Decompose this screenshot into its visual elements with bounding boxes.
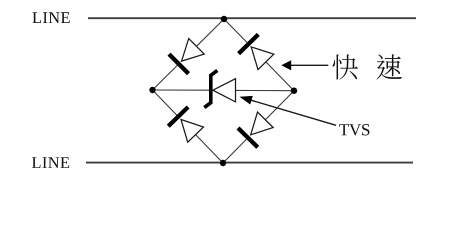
label: 快 (fast) [332, 54, 358, 79]
wire from diode D1 (upper-left, bridge) to vertex [197, 19, 225, 46]
diode D4 (lower-right, bridge): cathode bar [238, 128, 258, 147]
diode D1 (upper-left, bridge): triangle [182, 39, 205, 62]
junction dot: right vertex [291, 88, 297, 94]
diode D2 (upper-right, fast): triangle [251, 47, 274, 70]
label: TVS [339, 124, 369, 136]
net label: bottom LINE [32, 157, 69, 168]
diode D1 (upper-left, bridge): cathode bar [169, 54, 189, 74]
wire from diode D2 (upper-right, fast) to vertex [266, 62, 294, 91]
TVS diode D5: cathode bar with bent ends (zener style) [204, 71, 217, 108]
arrow shaft pointing to TVS [248, 99, 336, 125]
arrow shaft pointing to fast diode D2 [290, 64, 329, 66]
wire from vertex to diode D4 (lower-right, bridge) [223, 138, 248, 163]
wire from diode D4 (lower-right, bridge) to vertex [265, 91, 294, 120]
wire from vertex to diode D2 (upper-right, fast) [224, 19, 249, 44]
wire from vertex to diode D3 (lower-left, bridge) [153, 90, 179, 117]
wire: bottom LINE rail [86, 162, 413, 164]
diode D4 (lower-right, bridge): triangle [251, 112, 274, 135]
diode D2 (upper-right, fast): cathode bar [239, 34, 259, 53]
wire: TVS cathode to right vertex [236, 89, 295, 91]
TVS diode D5: triangle [213, 79, 236, 102]
junction dot: left vertex [149, 87, 155, 93]
label: 速 (speed) [377, 54, 403, 79]
wire from diode D3 (lower-left, bridge) to vertex [196, 135, 223, 163]
arrowhead pointing to fast diode D2 [281, 60, 291, 70]
wire from vertex to diode D1 (upper-left, bridge) [153, 64, 179, 90]
wire: left vertex to TVS anode [153, 89, 211, 91]
arrowhead pointing to TVS [240, 96, 253, 105]
junction dot: bottom vertex [220, 160, 226, 166]
diode D3 (lower-left, bridge): cathode bar [168, 107, 188, 126]
wire: top LINE rail [88, 17, 416, 19]
diode D3 (lower-left, bridge): triangle [181, 120, 204, 143]
net label: top LINE [33, 12, 70, 23]
junction dot: top vertex [221, 16, 227, 22]
